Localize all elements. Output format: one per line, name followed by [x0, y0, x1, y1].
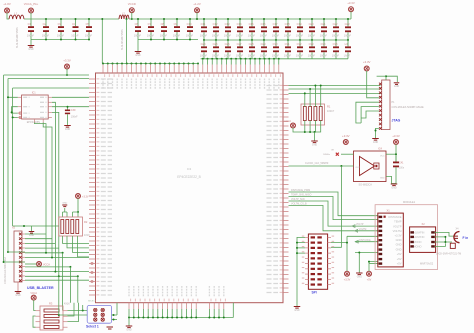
- ground: [30, 40, 32, 46]
- node junction: [188, 63, 190, 65]
- supply +3.3V left: [65, 64, 70, 69]
- svg-text:+1.2V: +1.2V: [193, 2, 201, 6]
- capacitor C20: [311, 19, 313, 26]
- svg-text:JTAG: JTAG: [392, 119, 401, 123]
- svg-text:+18V/FIN: +18V/FIN: [414, 235, 425, 239]
- wire: [232, 303, 234, 318]
- wire R1 tops: [305, 86, 321, 107]
- svg-text:100nF: 100nF: [236, 54, 244, 58]
- wire clk out: [289, 165, 354, 167]
- svg-text:+5V: +5V: [397, 257, 402, 261]
- svg-text:DISTANCE_PWM: DISTANCE_PWM: [291, 189, 310, 192]
- wire vertical 70.4: [69, 267, 71, 303]
- capacitor C13: [227, 19, 229, 26]
- ground mid: [358, 253, 360, 273]
- svg-text:VOLTM: VOLTM: [393, 229, 402, 233]
- node junction: [235, 58, 237, 60]
- svg-text:C9: C9: [174, 22, 178, 26]
- wire: [395, 144, 397, 161]
- ground: [64, 125, 71, 127]
- svg-text:100nF: 100nF: [308, 34, 316, 38]
- node junction: [166, 317, 168, 319]
- ground spi: [294, 306, 301, 308]
- svg-text:VOLTP: VOLTP: [393, 224, 402, 228]
- wire: [116, 303, 118, 315]
- svg-text:+3.3V: +3.3V: [347, 1, 355, 5]
- node junction: [195, 317, 197, 319]
- svg-text:SELECT: SELECT: [88, 301, 97, 303]
- wire mid rail: [204, 39, 348, 41]
- node junction: [171, 317, 173, 319]
- wire nCS: [52, 102, 56, 271]
- svg-text:VOLTM_CS_B: VOLTM_CS_B: [291, 202, 307, 205]
- capacitor C10: [189, 19, 191, 26]
- node junction: [154, 63, 156, 65]
- FPGA IC3 body: [96, 73, 284, 303]
- ground R1: [311, 140, 318, 142]
- svg-text:LM07: LM07: [344, 54, 351, 58]
- supply +3.3V spi: [345, 271, 350, 276]
- svg-text:+5V: +5V: [397, 252, 402, 256]
- wire R3 left: [33, 300, 36, 327]
- svg-text:4X4K7: 4X4K7: [327, 110, 335, 113]
- svg-text:C19: C19: [297, 22, 302, 26]
- node junction: [202, 58, 204, 60]
- svg-text:C7: C7: [148, 22, 152, 26]
- ground R2: [63, 208, 68, 217]
- IC3 bottom pins: [129, 303, 224, 309]
- svg-text:GND: GND: [62, 203, 67, 205]
- svg-text:100nF: 100nF: [200, 34, 208, 38]
- capacitor C18: [287, 19, 289, 26]
- svg-text:C3: C3: [58, 22, 62, 26]
- node junction: [150, 63, 152, 65]
- node junction: [67, 106, 69, 108]
- capacitor C14: [239, 19, 241, 26]
- svg-text:100nF: 100nF: [224, 34, 232, 38]
- capacitor C2: [45, 19, 47, 26]
- node junction: [164, 63, 166, 65]
- supply VCCA_PLL: [29, 8, 34, 13]
- svg-text:100nF: 100nF: [332, 54, 340, 58]
- wire R1 bottoms: [305, 121, 321, 133]
- node junction: [183, 63, 185, 65]
- node junction: [395, 153, 397, 155]
- node junction: [259, 58, 261, 60]
- wire DATA: [43, 123, 52, 258]
- svg-text:IC1: IC1: [32, 92, 37, 95]
- wire: [77, 198, 79, 212]
- svg-text:+3.3V: +3.3V: [63, 59, 71, 63]
- svg-text:VCCD: VCCD: [128, 2, 136, 6]
- ground P1 top: [394, 82, 400, 84]
- node junction: [58, 314, 60, 316]
- svg-text:C17: C17: [273, 22, 278, 26]
- wire spi left: [297, 237, 305, 306]
- node junction: [145, 63, 147, 65]
- svg-text:100nF: 100nF: [42, 33, 50, 37]
- svg-text:100nF: 100nF: [71, 116, 78, 119]
- svg-text:GND: GND: [391, 187, 396, 189]
- P1 pins: [379, 83, 382, 86]
- wire bottom bus: [129, 317, 233, 319]
- svg-text:100nF: 100nF: [260, 34, 268, 38]
- svg-text:100nF: 100nF: [332, 34, 340, 38]
- capacitor C29: [263, 40, 265, 46]
- wire: [369, 262, 378, 272]
- node junction: [128, 317, 130, 319]
- svg-text:GND: GND: [294, 310, 299, 312]
- svg-text:VCCA: VCCA: [284, 120, 291, 123]
- node junction: [245, 58, 247, 60]
- svg-text:MONO: MONO: [414, 240, 422, 244]
- jack X4: [454, 232, 460, 243]
- node junction: [178, 63, 180, 65]
- svg-text:+3.3V: +3.3V: [82, 196, 89, 199]
- svg-text:100nF: 100nF: [272, 54, 280, 58]
- supply +3.3V jtag: [364, 66, 369, 71]
- wire: [68, 303, 79, 322]
- connector X1: [378, 213, 404, 267]
- svg-text:C39: C39: [71, 109, 76, 112]
- svg-text:X2: X2: [422, 222, 426, 226]
- svg-text:C21: C21: [321, 22, 326, 26]
- svg-text:+1.8V: +1.8V: [3, 2, 11, 6]
- node junction: [240, 58, 242, 60]
- svg-text:100nF: 100nF: [344, 34, 352, 38]
- svg-text:C30: C30: [273, 42, 278, 46]
- IC1 left pins: [18, 96, 22, 98]
- node junction: [23, 225, 25, 227]
- wire: [355, 252, 378, 254]
- node junction: [309, 131, 311, 133]
- node junction: [207, 58, 209, 60]
- svg-text:VCCA_PLL: VCCA_PLL: [24, 2, 39, 6]
- svg-text:C6: C6: [135, 22, 139, 26]
- svg-text:R3: R3: [49, 302, 53, 306]
- svg-text:SG-8002CA: SG-8002CA: [359, 183, 373, 186]
- svg-text:C4: C4: [72, 22, 76, 26]
- svg-text:100nF: 100nF: [260, 54, 268, 58]
- svg-text:100nF: 100nF: [296, 34, 304, 38]
- node junction: [358, 252, 360, 254]
- svg-text:C32: C32: [297, 42, 302, 46]
- svg-text:GND: GND: [65, 129, 70, 131]
- node junction: [116, 63, 118, 65]
- capacitor C26: [227, 40, 229, 46]
- IC3 right pins: [283, 86, 289, 293]
- svg-text:C10: C10: [187, 22, 192, 26]
- wire: [66, 69, 68, 75]
- ground red: [109, 320, 111, 327]
- capacitor C32: [299, 40, 301, 46]
- connector P1 JTAG: [382, 80, 390, 130]
- capacitor C12: [215, 19, 217, 26]
- node junction: [138, 317, 140, 319]
- svg-text:C29: C29: [261, 42, 266, 46]
- svg-text:GND: GND: [126, 329, 131, 331]
- IC3 left pin bubbles: [91, 262, 93, 264]
- svg-text:C26: C26: [225, 42, 230, 46]
- svg-text:F in: F in: [463, 236, 469, 240]
- wire: [355, 241, 378, 243]
- capacitor C17: [275, 19, 277, 26]
- svg-text:GND: GND: [396, 243, 402, 247]
- node junction: [147, 317, 149, 319]
- wire IC1 to FPGA: [52, 97, 89, 106]
- oscillator IC4 50MHz: [354, 151, 387, 182]
- svg-text:CLOCK_CLK_50MHZ: CLOCK_CLK_50MHZ: [305, 162, 329, 165]
- wire: [13, 87, 89, 89]
- svg-text:GND: GND: [380, 178, 385, 180]
- svg-text:C41: C41: [399, 162, 404, 165]
- node junction: [101, 18, 103, 20]
- svg-text:VCC: VCC: [380, 156, 385, 158]
- svg-text:C13: C13: [225, 22, 230, 26]
- svg-text:100nF: 100nF: [27, 33, 35, 37]
- capacitor C3: [60, 19, 62, 26]
- capacitor C8: [163, 19, 165, 26]
- svg-text:C28: C28: [249, 42, 254, 46]
- X2 pads: [410, 231, 414, 233]
- IC3 bottom pin numbers: [131, 299, 226, 302]
- node junction: [226, 58, 228, 60]
- ground: [31, 226, 33, 231]
- svg-text:100nF: 100nF: [57, 33, 65, 37]
- node junction: [152, 317, 154, 319]
- svg-text:CON-MOLEX-5033-18A4: CON-MOLEX-5033-18A4: [4, 256, 7, 284]
- node junction: [176, 317, 178, 319]
- IC3 left pin numbers: [96, 79, 99, 295]
- wire VCCD riser: [126, 19, 128, 64]
- svg-text:VCCA: VCCA: [30, 292, 37, 295]
- jack X4 wires: [435, 232, 454, 242]
- inductor L2: [119, 15, 129, 19]
- capacitor C30: [275, 40, 277, 46]
- svg-text:100nF: 100nF: [248, 34, 256, 38]
- wire P1 bottom to gnd: [376, 128, 379, 138]
- node junction: [211, 58, 213, 60]
- wire: [314, 132, 316, 141]
- wire jtag nets: [289, 85, 381, 87]
- wire ASDI: [52, 112, 59, 276]
- svg-text:VOLTP_SCK: VOLTP_SCK: [291, 198, 305, 201]
- svg-text:100nF: 100nF: [160, 33, 168, 37]
- svg-text:+3.3V: +3.3V: [395, 233, 402, 237]
- no-connect OE: [341, 153, 354, 155]
- svg-text:100nF: 100nF: [186, 33, 194, 37]
- IC3 top pin numbers: [105, 74, 281, 77]
- IC3 right pin numbers: [280, 85, 283, 292]
- resistor network R1: [301, 104, 325, 125]
- svg-text:100nF: 100nF: [200, 54, 208, 58]
- node junction: [197, 63, 199, 65]
- wire: [196, 13, 198, 20]
- node junction: [223, 317, 225, 319]
- node junction: [264, 58, 266, 60]
- wire: [138, 39, 198, 41]
- wire: [369, 263, 378, 265]
- svg-text:+5V: +5V: [367, 279, 372, 282]
- capacitor C24: [203, 40, 205, 46]
- node junction: [444, 236, 446, 238]
- svg-text:VCCA: VCCA: [43, 263, 50, 266]
- svg-text:100nF: 100nF: [147, 33, 155, 37]
- wire net VOLTP: [289, 201, 379, 226]
- connector X3 SPI: [308, 234, 327, 289]
- svg-text:OUT: OUT: [356, 167, 361, 169]
- node junction: [368, 261, 370, 263]
- svg-text:GND: GND: [29, 235, 34, 237]
- supply +1.8V: [5, 8, 10, 13]
- svg-text:R2: R2: [84, 220, 88, 224]
- svg-text:MONO: MONO: [414, 244, 422, 248]
- svg-text:100nF: 100nF: [320, 54, 328, 58]
- svg-text:C25: C25: [213, 42, 218, 46]
- wire: [435, 243, 446, 246]
- IC3 top pin names: [103, 79, 279, 90]
- node junction: [169, 63, 171, 65]
- IC3 right pin names: [267, 86, 279, 293]
- node junction: [186, 317, 188, 319]
- wire: [8, 78, 89, 80]
- op-amp IC1 EPCS flash: [22, 95, 49, 119]
- node junction: [112, 63, 114, 65]
- node junction: [157, 317, 159, 319]
- capacitor C33: [311, 40, 313, 46]
- svg-text:Select 1: Select 1: [86, 325, 99, 329]
- svg-text:USB_BLASTER: USB_BLASTER: [27, 286, 54, 290]
- svg-text:+3.3V: +3.3V: [344, 279, 351, 282]
- inductor L3: [347, 40, 349, 46]
- connector X5 USB-blaster: [14, 231, 22, 282]
- wire: [347, 235, 378, 237]
- node junction: [66, 74, 68, 76]
- capacitor C5: [88, 19, 90, 26]
- wire rail: [129, 18, 351, 20]
- svg-text:R1: R1: [327, 105, 331, 109]
- capacitor C28: [251, 40, 253, 46]
- wire: [31, 39, 89, 41]
- wire rail B: [201, 58, 348, 60]
- wire switch right: [112, 314, 117, 316]
- svg-text:MNF7JA/22: MNF7JA/22: [420, 263, 434, 266]
- switch S1 Select 1: [87, 305, 111, 323]
- node junction: [77, 211, 79, 213]
- svg-text:100n: 100n: [399, 168, 405, 170]
- wire: [350, 12, 352, 20]
- node junction: [216, 58, 218, 60]
- ground: [17, 282, 19, 291]
- svg-text:100nF: 100nF: [248, 54, 256, 58]
- svg-text:100nF: 100nF: [71, 33, 79, 37]
- svg-text:DISTANCE: DISTANCE: [388, 215, 401, 219]
- IC1 bottom pins: [34, 119, 36, 123]
- svg-text:+3.3V: +3.3V: [392, 134, 400, 138]
- svg-text:100nF: 100nF: [308, 54, 316, 58]
- svg-text:100nF: 100nF: [224, 54, 232, 58]
- node junction: [218, 317, 220, 319]
- X1 pads: [379, 216, 383, 218]
- svg-text:4X1K: 4X1K: [84, 234, 90, 237]
- wire: [367, 71, 379, 98]
- wire IC1 left: [8, 97, 18, 117]
- wire P1 top gnd: [386, 76, 397, 82]
- capacitor C22: [335, 19, 337, 26]
- svg-text:GND: GND: [396, 238, 402, 242]
- node junction: [249, 58, 251, 60]
- node junction: [45, 252, 47, 254]
- svg-text:C23: C23: [345, 22, 350, 26]
- svg-text:C1: C1: [28, 22, 32, 26]
- node junction: [126, 63, 128, 65]
- node junction: [131, 18, 133, 20]
- supply VCCA mid: [76, 194, 81, 199]
- capacitor C11: [203, 19, 205, 26]
- IC3 bottom pin names: [129, 286, 224, 297]
- svg-text:TEMP: TEMP: [394, 219, 402, 223]
- svg-text:VOLTM: VOLTM: [359, 229, 367, 231]
- svg-text:TEMP_SNS_MISO: TEMP_SNS_MISO: [291, 193, 311, 196]
- wire: [293, 128, 305, 132]
- svg-text:C34: C34: [321, 42, 326, 46]
- svg-text:GND: GND: [396, 248, 402, 252]
- capacitor C41: [395, 156, 397, 162]
- node junction: [107, 63, 109, 65]
- svg-text:+18V/FIN: +18V/FIN: [414, 230, 425, 234]
- svg-text:GND: GND: [373, 142, 378, 144]
- node junction: [113, 314, 115, 316]
- svg-text:IC3: IC3: [187, 167, 192, 171]
- supply +5V: [367, 271, 372, 276]
- capacitor C39: [67, 107, 69, 110]
- supply VCCD: [129, 8, 134, 13]
- svg-text:C24: C24: [201, 42, 206, 46]
- wire: [4, 261, 25, 263]
- ground: [137, 40, 139, 52]
- X3 pads: [311, 236, 315, 238]
- ground bus: [128, 318, 130, 326]
- wire vertical 77.8: [77, 276, 79, 302]
- svg-text:BLM-MSM4715BS: BLM-MSM4715BS: [121, 29, 124, 50]
- IC3 left pin names: [101, 79, 112, 295]
- capacitor C4: [75, 19, 77, 26]
- svg-text:CON-MOLEX-5220BT-18A4E: CON-MOLEX-5220BT-18A4E: [392, 106, 424, 109]
- capacitor C19: [299, 19, 301, 26]
- wire R2 to FPGA: [63, 236, 90, 257]
- svg-text:GND: GND: [15, 295, 20, 297]
- svg-text:100nF: 100nF: [272, 34, 280, 38]
- node junction: [375, 130, 377, 132]
- node junction: [208, 317, 210, 319]
- node junction: [340, 165, 342, 167]
- svg-text:C14: C14: [237, 22, 242, 26]
- svg-text:MODULE1: MODULE1: [403, 201, 416, 204]
- svg-text:C20: C20: [309, 22, 314, 26]
- node junction: [140, 63, 142, 65]
- wire vertical 62.6: [62, 253, 64, 311]
- node junction: [82, 310, 84, 312]
- svg-text:X1: X1: [387, 208, 391, 212]
- node junction: [254, 58, 256, 60]
- node junction: [121, 63, 123, 65]
- capacitor C34: [323, 40, 325, 46]
- node junction: [192, 63, 194, 65]
- capacitor C6: [137, 19, 139, 26]
- node junction: [213, 317, 215, 319]
- supply VCCA: [37, 262, 42, 267]
- wire: [73, 212, 79, 217]
